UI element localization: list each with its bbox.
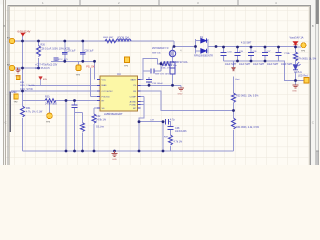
svg-text:10nF/1206: 10nF/1206: [175, 130, 187, 133]
svg-text:R?A 0603, 1k, 5%: R?A 0603, 1k, 5%: [297, 58, 317, 61]
svg-text:CS: CS: [133, 85, 137, 87]
svg-text:C29 1uF: C29 1uF: [66, 49, 76, 52]
svg-text:R33 0603, 10k, 0.5%: R33 0603, 10k, 0.5%: [236, 94, 259, 97]
svg-text:10uF SMT: 10uF SMT: [253, 63, 265, 66]
svg-text:24.9k 1%: 24.9k 1%: [96, 119, 107, 122]
svg-text:R34 0603, 2.4k, 0.5%: R34 0603, 2.4k, 0.5%: [236, 126, 260, 129]
svg-text:10uF SMT: 10uF SMT: [239, 63, 251, 66]
svg-text:LED Red: LED Red: [298, 75, 308, 78]
svg-text:SS_frm: SS_frm: [96, 126, 104, 129]
svg-text:CYC/SYNC: CYC/SYNC: [102, 91, 114, 93]
svg-text:R30: R30: [45, 96, 50, 99]
svg-text:Vout: Vout: [235, 78, 240, 81]
svg-text:100k, 1%: 100k, 1%: [161, 68, 170, 70]
svg-text:VCC: VCC: [102, 80, 107, 82]
svg-text:PGND: PGND: [130, 104, 137, 106]
svg-text:4.02 SMT: 4.02 SMT: [241, 42, 252, 45]
svg-text:4.7p: 4.7p: [170, 119, 175, 122]
svg-text:B: B: [3, 24, 5, 28]
svg-text:VDCM 10A: VDCM 10A: [117, 37, 129, 40]
svg-text:GND: GND: [15, 76, 20, 78]
svg-text:GND: GND: [112, 159, 117, 161]
svg-text:4.7k 1%: 4.7k 1%: [174, 141, 184, 144]
svg-text:BIAS: BIAS: [102, 84, 108, 87]
svg-text:AGND: AGND: [130, 101, 137, 104]
svg-text:C33 100nF: C33 100nF: [152, 83, 163, 85]
svg-text:GND PLN 0.5: GND PLN 0.5: [35, 67, 50, 70]
svg-text:0805, 3.4k, 1%: 0805, 3.4k, 1%: [20, 85, 35, 87]
svg-text:GATE: GATE: [130, 79, 136, 82]
svg-text:VCC_6V5: VCC_6V5: [58, 59, 69, 61]
svg-text:1.47Lm: 1.47Lm: [294, 71, 302, 74]
svg-text:B: B: [312, 24, 314, 28]
svg-text:SMT 10k: SMT 10k: [152, 52, 162, 54]
svg-text:10uF SMT: 10uF SMT: [267, 63, 279, 66]
svg-text:Vout/14V 1A: Vout/14V 1A: [290, 36, 304, 39]
svg-text:PGND: PGND: [10, 91, 17, 94]
svg-text:SMT 25A 10m: SMT 25A 10m: [163, 64, 177, 67]
svg-text:COMP: COMP: [129, 96, 136, 98]
svg-text:RFN10NS6DNTR: RFN10NS6DNTR: [194, 55, 213, 58]
svg-text:PGOOD: PGOOD: [102, 96, 111, 98]
svg-text:R26: R26: [41, 43, 46, 46]
svg-text:GND: GND: [292, 91, 297, 93]
svg-text:CYC_SYNC: CYC_SYNC: [20, 88, 33, 91]
svg-text:10uF SMT: 10uF SMT: [281, 63, 293, 66]
svg-text:PG_OK: PG_OK: [86, 66, 95, 69]
svg-text:C?4A: C?4A: [284, 52, 290, 55]
svg-text:6.0V-12.4V: 6.0V-12.4V: [18, 30, 31, 34]
svg-text:LM25 0.65 680 9V 10A: LM25 0.65 680 9V 10A: [163, 61, 188, 64]
svg-text:0R05 SMT: 0R05 SMT: [103, 37, 114, 39]
svg-text:10uF SMT: 10uF SMT: [225, 63, 237, 66]
svg-text:24.9k 0805: 24.9k 0805: [45, 103, 58, 106]
svg-text:LM5156HRGRT: LM5156HRGRT: [104, 112, 123, 116]
svg-text:SMT 16V 10%: SMT 16V 10%: [155, 74, 169, 76]
svg-text:2N7002DW-7-F: 2N7002DW-7-F: [152, 47, 169, 50]
svg-text:C30 1uF: C30 1uF: [84, 49, 94, 52]
svg-text:4.7k, 1%, 0.1W: 4.7k, 1%, 0.1W: [26, 110, 43, 113]
svg-text:GND: GND: [178, 94, 183, 96]
svg-text:U4: U4: [117, 72, 121, 76]
